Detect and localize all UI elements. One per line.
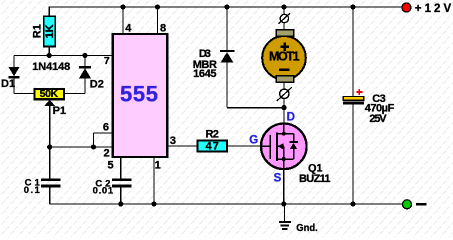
svg-text:Gnd.: Gnd. [296,222,318,234]
svg-text:D: D [287,111,295,123]
svg-text:P1: P1 [53,105,66,117]
svg-text:4: 4 [125,22,132,34]
IC U1 555 [113,34,168,157]
wire pin 4 [122,7,124,33]
P1 wiper arrow [44,100,55,147]
wire C1 branch upper [49,147,51,179]
node C3 rail junction bottom [350,201,355,206]
svg-text:0.1: 0.1 [24,185,41,196]
svg-text:D1: D1 [1,78,15,90]
node C2 rail junction [118,201,123,206]
wire C1 branch lower [49,187,51,204]
wire source to rail [283,159,285,204]
wire C2 branch lower [120,187,122,204]
node source rail junction [281,201,286,206]
wire C3 branch lower [352,105,354,204]
wire bottom rail [50,203,403,205]
wire D3 branch vertical upper [226,7,228,51]
node D2 top junction [82,53,87,58]
wire pin7 horizontal [14,55,112,57]
resistor R2 [197,141,227,153]
wire motor top [283,7,285,15]
capacitor C1 [41,178,61,187]
terminal negative (green) [403,200,412,209]
svg-text:G: G [249,135,258,147]
svg-text:R1: R1 [32,24,44,38]
svg-text:+12V: +12V [415,3,452,15]
ground [279,204,291,230]
svg-text:3: 3 [170,135,176,147]
svg-text:1N4148: 1N4148 [32,61,70,73]
svg-text:5: 5 [107,160,113,172]
svg-text:50K: 50K [40,88,59,100]
svg-text:6: 6 [103,122,109,134]
node C3 rail junction [350,4,355,9]
node pin4 rail junction [120,4,125,9]
connector bottom (circle with slash) [277,87,292,101]
svg-text:1645: 1645 [193,68,216,80]
resistor R1 [32,16,56,46]
diode D3 [220,50,235,108]
node motor rail junction [281,4,286,9]
svg-text:8: 8 [160,22,166,34]
wire R1 bottom vertical [48,46,50,55]
minus label [416,203,427,206]
node drain junction [281,105,286,110]
svg-text:25V: 25V [369,113,387,125]
wire pin 8 [157,7,159,33]
wire pin 5 / C2 branch upper [120,157,122,179]
wire D1 to pot [14,93,34,95]
wire D3 to drain node [227,107,284,109]
svg-text:2: 2 [104,147,110,159]
wire motor bottom [283,82,285,89]
diode D2 [79,56,91,94]
wire R1 top vertical [48,7,50,17]
svg-text:S: S [274,173,282,185]
node D3 rail junction [224,4,229,9]
svg-text:R2: R2 [206,128,219,140]
node R1/D-network junction [47,53,52,58]
transistor Q1 (MOSFET BUZ11) [261,124,307,170]
motor MOT1 [262,30,306,82]
terminal +12V [402,3,411,12]
svg-text:47: 47 [206,141,219,153]
diode D1 [8,56,19,94]
capacitor C3 (electrolytic) [343,89,364,105]
svg-text:1K: 1K [44,24,56,38]
connector top (circle with slash) [278,13,290,24]
wire pin 6 stub [94,133,113,147]
svg-text:0.01: 0.01 [93,185,114,196]
wire top power rail [49,6,405,8]
svg-text:MOT1: MOT1 [269,50,300,64]
svg-text:555: 555 [120,82,158,107]
potentiometer P1 50K [34,88,64,100]
wire pin 3 horizontal [168,145,198,147]
capacitor C2 [112,178,132,187]
wire connector to drain node [283,99,285,124]
wire connector to motor [283,23,285,31]
svg-text:D2: D2 [90,79,104,91]
wire R2 to gate [227,145,270,147]
svg-text:7: 7 [104,55,110,67]
node wiper/pin2 junction [47,144,52,149]
wire pin 1 vertical [153,157,155,204]
wire pin 2 horizontal [50,146,112,148]
node pin1 rail junction [151,201,156,206]
node pin6/pin2 junction [91,144,96,149]
svg-text:BUZ11: BUZ11 [299,173,331,185]
svg-text:1: 1 [155,160,161,172]
node pin8 rail junction [155,4,160,9]
wire C3 branch upper [352,7,354,97]
wire D2 to pot [64,93,85,95]
